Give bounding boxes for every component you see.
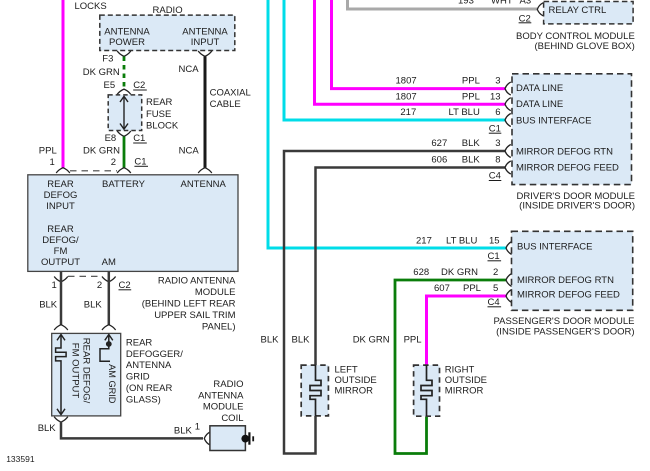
- svg-text:PASSENGER'S DOOR MODULE: PASSENGER'S DOOR MODULE: [494, 316, 635, 327]
- wire DK GRN fuse block to module: [123, 137, 126, 169]
- svg-text:REAR: REAR: [146, 97, 173, 108]
- svg-text:1: 1: [52, 280, 57, 291]
- pin E8 label: [105, 133, 117, 144]
- pin 13 arc driver module (data line 2): [505, 98, 511, 111]
- label BLK (grid ground wire): [38, 423, 57, 434]
- svg-text:RIGHT: RIGHT: [445, 364, 475, 375]
- label 193 WHT A3: [458, 0, 531, 6]
- svg-text:REAR: REAR: [47, 179, 74, 190]
- svg-text:GRID: GRID: [126, 372, 150, 383]
- svg-text:LT BLU: LT BLU: [446, 235, 477, 246]
- svg-text:C1: C1: [489, 123, 501, 134]
- svg-text:COAXIAL: COAXIAL: [210, 87, 251, 98]
- connector C4 label (driver door module): [489, 171, 502, 182]
- svg-text:193: 193: [458, 0, 474, 6]
- pin 2 label (module bottom): [97, 280, 102, 291]
- svg-text:INPUT: INPUT: [191, 37, 220, 48]
- svg-text:1807: 1807: [396, 76, 417, 87]
- svg-text:DEFOG/: DEFOG/: [42, 235, 79, 246]
- radio module label RADIO: [153, 5, 183, 16]
- label 217 LT BLU 15: [416, 235, 500, 246]
- svg-text:MODULE: MODULE: [195, 287, 236, 298]
- svg-text:C4: C4: [489, 171, 501, 182]
- svg-text:RELAY CTRL: RELAY CTRL: [549, 5, 607, 16]
- right outside mirror defog element: [421, 365, 432, 416]
- pin 2 label: [111, 157, 116, 168]
- svg-text:133591: 133591: [6, 454, 35, 464]
- wire BLK 627 mirror defog rtn: [284, 151, 506, 454]
- svg-text:RADIO ANTENNA: RADIO ANTENNA: [158, 276, 236, 287]
- label DK GRN: [83, 145, 120, 156]
- svg-text:(BEHIND LEFT REAR: (BEHIND LEFT REAR: [142, 299, 236, 310]
- radio connector box (ANTENNA POWER / ANTENNA INPUT): [100, 15, 235, 50]
- svg-text:PPL: PPL: [404, 334, 422, 345]
- label 627 BLK 3: [431, 138, 500, 149]
- svg-text:DEFOGGER/: DEFOGGER/: [126, 349, 183, 360]
- label BLK with pin 1 (coil): [174, 422, 200, 437]
- wire BLK pin1 to defogger grid: [60, 271, 63, 325]
- svg-text:PPL: PPL: [462, 76, 480, 87]
- radio antenna module box: [28, 175, 238, 272]
- pin 6 arc driver module (bus interface): [505, 114, 511, 127]
- svg-text:GLASS): GLASS): [126, 394, 161, 405]
- wire LT BLU inner (bus to driver door): [284, 0, 506, 120]
- connector C1 label (driver door module): [489, 123, 502, 134]
- label BLK (606 wire): [292, 334, 311, 345]
- node LOCKS label: [75, 1, 107, 12]
- grid element (REAR DEFOG/FM OUTPUT line with arrows and zigzag): [56, 335, 67, 415]
- label COAXIAL CABLE: [210, 87, 251, 110]
- svg-text:BLK: BLK: [462, 138, 481, 149]
- body control module name: [516, 31, 635, 52]
- label NCA lower: [179, 145, 200, 156]
- svg-text:217: 217: [400, 107, 416, 118]
- svg-text:1: 1: [195, 422, 200, 433]
- svg-text:BATTERY: BATTERY: [102, 179, 146, 190]
- svg-text:BUS INTERFACE: BUS INTERFACE: [517, 242, 593, 253]
- svg-text:2: 2: [97, 280, 102, 291]
- connector C1 label (fuse block bottom): [133, 133, 147, 144]
- svg-text:DK GRN: DK GRN: [441, 267, 478, 278]
- svg-text:ANTENNA: ANTENNA: [126, 360, 172, 371]
- pin antenna arc at module top: [198, 168, 212, 173]
- wire PPL data line outer: [315, 0, 506, 104]
- pin 1 arc at module top: [56, 168, 70, 173]
- wire PPL data line inner: [332, 0, 506, 89]
- svg-text:FM OUTPUT: FM OUTPUT: [70, 343, 81, 399]
- svg-text:6: 6: [495, 107, 500, 118]
- svg-text:F3: F3: [102, 53, 113, 64]
- label 606 BLK 8: [431, 155, 500, 166]
- wire PPL 607 mirror defog feed: [427, 296, 507, 365]
- rear fuse block name: [146, 97, 179, 132]
- svg-text:15: 15: [489, 235, 500, 246]
- svg-text:5: 5: [493, 283, 498, 294]
- svg-text:217: 217: [416, 235, 432, 246]
- svg-text:MIRROR DEFOG RTN: MIRROR DEFOG RTN: [517, 275, 614, 286]
- body control module relay ctrl box: [544, 2, 634, 24]
- svg-text:AM GRID: AM GRID: [107, 364, 117, 404]
- svg-text:(INSIDE DRIVER'S DOOR): (INSIDE DRIVER'S DOOR): [519, 200, 635, 211]
- svg-text:NCA: NCA: [179, 145, 200, 156]
- pin 1 label (module bottom): [52, 280, 57, 291]
- radio antenna module coil box: [210, 426, 246, 451]
- svg-text:628: 628: [413, 267, 429, 278]
- svg-text:MIRROR DEFOG RTN: MIRROR DEFOG RTN: [516, 147, 613, 158]
- wire DK GRN 628 mirror defog rtn: [395, 280, 507, 454]
- pin E5 arc at fuse block top: [117, 89, 131, 94]
- wire PPL from door locks (left vertical magenta): [62, 0, 65, 168]
- svg-text:OUTPUT: OUTPUT: [41, 257, 80, 268]
- pin 3 arc driver module (data line 1): [505, 82, 511, 95]
- svg-text:E5: E5: [104, 80, 116, 91]
- svg-text:BLOCK: BLOCK: [146, 121, 179, 132]
- pin 5 arc passenger module (defog feed): [506, 290, 512, 303]
- label 1807 PPL 3: [396, 76, 501, 87]
- svg-text:3: 3: [495, 76, 500, 87]
- svg-text:UPPER SAIL TRIM: UPPER SAIL TRIM: [154, 310, 235, 321]
- wire WHT relay control: [348, 0, 538, 9]
- svg-text:COIL: COIL: [221, 413, 243, 424]
- right outside mirror box: [414, 365, 440, 416]
- driver door module box: [512, 74, 632, 185]
- svg-text:607: 607: [434, 283, 450, 294]
- connector C1 label (module top): [134, 157, 148, 168]
- label 607 PPL 5: [434, 283, 498, 294]
- left outside mirror box: [301, 365, 328, 416]
- svg-text:BLK: BLK: [174, 425, 193, 436]
- svg-text:MIRROR DEFOG FEED: MIRROR DEFOG FEED: [516, 162, 619, 173]
- pin NCA arc at radio antenna input bottom: [198, 51, 212, 56]
- pin arc grid box top right: [102, 325, 116, 330]
- rotated label REAR DEFOG/ FM OUTPUT: [70, 338, 92, 404]
- figure number 133591: [6, 454, 35, 464]
- wire DK GRN fusible (dashed green radio to fuse block): [123, 57, 126, 90]
- connector C1 label (passenger door module): [488, 251, 502, 262]
- svg-text:606: 606: [431, 155, 447, 166]
- svg-text:RADIO: RADIO: [153, 5, 183, 16]
- pin E5 label: [104, 80, 116, 91]
- svg-text:MODULE: MODULE: [203, 402, 244, 413]
- rotated label AM GRID: [107, 364, 117, 404]
- svg-text:NCA: NCA: [179, 64, 200, 75]
- svg-text:BLK: BLK: [261, 334, 280, 345]
- svg-text:OUTSIDE: OUTSIDE: [335, 375, 377, 386]
- label DK GRN: [83, 67, 120, 78]
- pin 2 arc at module top: [117, 168, 131, 173]
- label BLK (pin1 wire): [39, 300, 58, 311]
- svg-text:DK GRN: DK GRN: [83, 145, 120, 156]
- svg-text:MIRROR: MIRROR: [445, 386, 484, 397]
- pin arc grid box top left: [54, 325, 68, 330]
- right outside mirror name: [445, 364, 487, 396]
- svg-text:OUTSIDE: OUTSIDE: [445, 375, 487, 386]
- passenger door module box: [512, 231, 633, 310]
- wire BLK grid to coil: [61, 422, 203, 439]
- label PPL (607 wire): [404, 334, 422, 345]
- pin 3 arc driver module (defog rtn): [505, 145, 511, 158]
- svg-text:A3: A3: [520, 0, 532, 6]
- svg-text:13: 13: [490, 91, 501, 102]
- left outside mirror defog element: [310, 365, 321, 416]
- pin 8 arc driver module (defog feed): [505, 161, 511, 174]
- pin A3 arc at relay ctrl: [537, 3, 543, 16]
- svg-text:MIRROR: MIRROR: [335, 386, 374, 397]
- svg-text:LEFT: LEFT: [335, 364, 358, 375]
- svg-text:AM: AM: [102, 257, 116, 268]
- svg-text:BLK: BLK: [39, 300, 58, 311]
- label 217 LT BLU 6: [400, 107, 500, 118]
- label DK GRN (628 wire): [353, 334, 390, 345]
- connector C4 label (passenger door module): [488, 297, 502, 308]
- svg-text:(BEHIND GLOVE BOX): (BEHIND GLOVE BOX): [534, 41, 634, 52]
- svg-text:BUS INTERFACE: BUS INTERFACE: [516, 115, 592, 126]
- wire LT BLU outer (bus to passenger door): [268, 0, 507, 248]
- svg-text:1807: 1807: [396, 91, 417, 102]
- connector C2 dashed link between pins 1 and 2 on module bottom: [68, 275, 102, 277]
- svg-text:REAR DEFOG/: REAR DEFOG/: [81, 338, 92, 404]
- fuse element double arrow inside fuse block: [120, 96, 128, 129]
- passenger door module name: [494, 316, 635, 338]
- radio antenna module name: [142, 276, 236, 333]
- pin F3 arc at radio box bottom: [117, 51, 131, 56]
- connector C1 dashed link between pins 1 and 2 on module top: [70, 170, 117, 172]
- svg-text:DK GRN: DK GRN: [83, 67, 120, 78]
- svg-text:MIRROR DEFOG FEED: MIRROR DEFOG FEED: [517, 290, 620, 301]
- svg-text:RADIO: RADIO: [213, 379, 243, 390]
- rear defogger grid name: [126, 337, 183, 405]
- svg-text:CABLE: CABLE: [210, 99, 241, 110]
- svg-text:3: 3: [495, 138, 500, 149]
- svg-text:POWER: POWER: [109, 37, 145, 48]
- svg-text:LT BLU: LT BLU: [449, 107, 480, 118]
- connector C2 label (module bottom): [119, 280, 132, 291]
- label 628 DK GRN 2: [413, 267, 498, 278]
- driver door module name: [517, 191, 635, 212]
- svg-text:8: 8: [495, 155, 500, 166]
- rear defogger antenna grid box: [52, 333, 121, 416]
- svg-text:ANTENNA: ANTENNA: [198, 390, 244, 401]
- svg-text:DK GRN: DK GRN: [353, 334, 390, 345]
- pin E8 arc at fuse block bottom: [117, 131, 131, 136]
- svg-text:BLK: BLK: [462, 155, 481, 166]
- svg-text:DATA LINE: DATA LINE: [516, 99, 563, 110]
- connector C2 label (body control module): [519, 13, 532, 24]
- svg-text:FM: FM: [54, 246, 68, 257]
- svg-text:2: 2: [111, 157, 116, 168]
- label BLK (627 wire): [261, 334, 280, 345]
- svg-text:BLK: BLK: [292, 334, 311, 345]
- svg-text:627: 627: [431, 138, 447, 149]
- svg-text:PPL: PPL: [462, 91, 480, 102]
- svg-text:BLK: BLK: [38, 423, 57, 434]
- svg-text:E8: E8: [105, 133, 117, 144]
- svg-text:PANEL): PANEL): [202, 321, 236, 332]
- svg-text:FUSE: FUSE: [146, 109, 171, 120]
- wire BLK pin2 to defogger grid: [108, 271, 111, 325]
- svg-text:PPL: PPL: [463, 283, 481, 294]
- svg-text:BLK: BLK: [84, 300, 103, 311]
- connector C2 label (fuse block top): [133, 80, 147, 91]
- svg-text:(INSIDE PASSENGER'S DOOR): (INSIDE PASSENGER'S DOOR): [496, 327, 634, 338]
- left outside mirror name: [335, 364, 377, 396]
- pin 1 label: [50, 157, 55, 168]
- pin 1 arc at coil box left: [204, 432, 210, 445]
- coil output junction dot and antenna bars: [241, 432, 253, 444]
- pin 15 arc passenger module (bus interface): [506, 242, 512, 255]
- svg-text:2: 2: [493, 267, 498, 278]
- pin 2 arc at module bottom: [102, 277, 116, 282]
- radio antenna module coil name: [198, 379, 244, 424]
- label NCA upper: [179, 64, 200, 75]
- svg-text:LOCKS: LOCKS: [75, 1, 107, 12]
- svg-text:PPL: PPL: [39, 145, 57, 156]
- svg-text:WHT: WHT: [491, 0, 513, 6]
- label 1807 PPL 13: [396, 91, 501, 102]
- svg-text:REAR: REAR: [47, 224, 74, 235]
- AM grid tap (line, junction dot, hook): [100, 335, 113, 362]
- svg-text:DATA LINE: DATA LINE: [516, 83, 563, 94]
- label BLK (pin2 wire): [84, 300, 103, 311]
- svg-text:INPUT: INPUT: [46, 201, 75, 212]
- wire BLK 606 mirror defog feed: [316, 168, 506, 366]
- svg-text:(ON REAR: (ON REAR: [126, 383, 173, 394]
- label PPL: [39, 145, 57, 156]
- pin arc grid box bottom: [54, 417, 68, 422]
- pin 1 arc at module bottom: [54, 277, 68, 282]
- pin 2 arc passenger module (defog rtn): [506, 274, 512, 287]
- svg-text:1: 1: [50, 157, 55, 168]
- svg-text:DEFOG: DEFOG: [44, 190, 78, 201]
- pin F3 label: [102, 53, 113, 64]
- svg-text:REAR: REAR: [126, 337, 153, 348]
- svg-text:ANTENNA: ANTENNA: [180, 179, 226, 190]
- wire coaxial cable (NCA): [204, 57, 207, 169]
- rear fuse block box: [108, 95, 142, 131]
